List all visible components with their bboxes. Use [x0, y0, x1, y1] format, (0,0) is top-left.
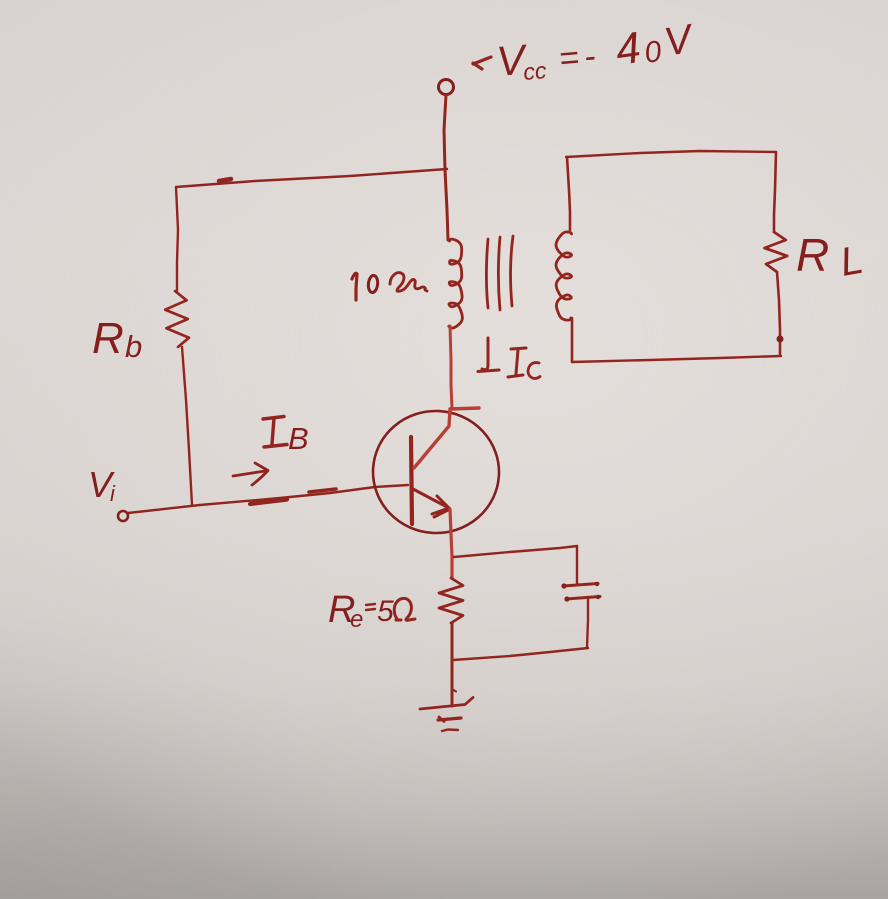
- junction blob RL bottom: [777, 336, 784, 343]
- transformer primary coil 10ohm: [449, 239, 463, 328]
- wire emitter to Re: [450, 509, 452, 578]
- transistor emitter stroke: [413, 489, 447, 507]
- svg-text:R: R: [92, 314, 124, 363]
- svg-text:B: B: [288, 421, 309, 456]
- resistor Re: [439, 578, 463, 623]
- label Re=5ohm: [328, 589, 415, 633]
- transformer core lines: [487, 236, 514, 310]
- junction mark on top wire: [219, 179, 231, 181]
- wire cap branch top: [454, 546, 577, 557]
- svg-text:e: e: [350, 606, 363, 633]
- label Vi: [88, 464, 116, 506]
- svg-text:L: L: [837, 238, 867, 285]
- wire secondary bottom lead: [571, 318, 574, 362]
- svg-text:cc: cc: [522, 57, 548, 85]
- ground symbol: [420, 698, 473, 732]
- svg-text:5: 5: [377, 595, 394, 628]
- transistor base bar: [411, 437, 412, 524]
- svg-text:=: =: [557, 38, 580, 78]
- label 10ohm: [352, 273, 427, 300]
- label Rb: [92, 314, 142, 364]
- svg-text:0: 0: [642, 35, 663, 70]
- svg-text:R: R: [796, 229, 829, 281]
- terminal Vcc (supply node): [439, 80, 454, 95]
- wire cap bottom lead: [587, 598, 588, 648]
- wire Vcc to transformer primary: [444, 95, 448, 240]
- label RL: [796, 229, 866, 285]
- transistor emitter arrowhead: [432, 496, 449, 517]
- svg-text:V: V: [661, 16, 698, 65]
- svg-text:i: i: [110, 481, 116, 506]
- wire primary bottom to collector: [450, 326, 452, 409]
- wire RL loop bottom: [572, 356, 781, 362]
- label -Vcc = -40V: [473, 16, 698, 85]
- wire cap top lead: [576, 546, 578, 584]
- arrow IB: [233, 463, 268, 485]
- svg-text:4: 4: [613, 23, 644, 75]
- wire Vi to base: [128, 485, 408, 513]
- transformer secondary coil: [556, 232, 572, 320]
- wire RL loop right lower: [777, 272, 780, 355]
- svg-text:-: -: [582, 37, 597, 76]
- wire Re to ground: [452, 660, 456, 706]
- wire collector node to Rb (top horizontal): [176, 169, 447, 187]
- capacitor C plates: [561, 582, 600, 602]
- wire secondary top lead: [567, 157, 570, 230]
- wire Rb top lead: [176, 187, 178, 291]
- wire cap branch bottom: [453, 648, 588, 660]
- overdrawn ink on base wire: [250, 489, 336, 504]
- label IB: [263, 417, 309, 457]
- resistor Rb: [165, 291, 189, 347]
- terminal Vi: [118, 511, 128, 521]
- wire Rb bottom lead: [182, 347, 192, 505]
- wire Re bottom lead: [451, 623, 454, 660]
- transistor Q1 body circle: [370, 408, 502, 536]
- wire RL loop right upper: [774, 152, 776, 232]
- transistor collector stroke: [414, 408, 479, 468]
- svg-text:b: b: [125, 329, 142, 364]
- label Ic with down arrow: [478, 338, 540, 378]
- wire RL loop top: [566, 151, 776, 157]
- resistor RL: [765, 232, 788, 272]
